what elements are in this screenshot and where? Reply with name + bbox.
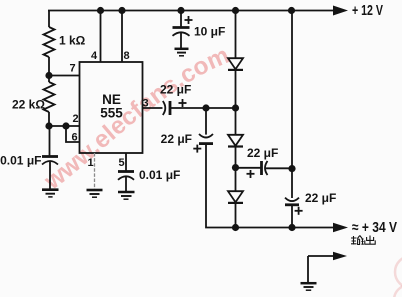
- capacitor C7 22uF (right vertical): [285, 198, 299, 228]
- diode D3: [228, 168, 243, 228]
- svg-text:22 μF: 22 μF: [247, 146, 278, 160]
- wire rail to C3: [180, 11, 182, 28]
- capacitor C1 0.01uF plates: [42, 157, 58, 190]
- ground bottom right: [301, 283, 317, 290]
- capacitor C5 22uF (vertical): [199, 134, 213, 144]
- svg-text:0.01 μF: 0.01 μF: [139, 168, 180, 182]
- svg-text:22 μF: 22 μF: [160, 83, 191, 97]
- junction dot D1-D2: [232, 104, 239, 111]
- svg-text:22 μF: 22 μF: [161, 132, 192, 146]
- watermark www.elecfans.com: [39, 42, 234, 196]
- svg-text:8: 8: [123, 50, 129, 62]
- svg-text:2: 2: [72, 113, 78, 125]
- wire pin 3 to C4: [143, 107, 163, 109]
- watermark circle arc 1: [395, 256, 402, 288]
- plus sign C5: [193, 145, 201, 153]
- svg-text:22 kΩ: 22 kΩ: [12, 98, 45, 112]
- wire right column: [291, 11, 293, 199]
- junction dot C7 bottom rail: [288, 224, 295, 231]
- wire node to R2: [48, 76, 50, 83]
- diode D1: [228, 58, 243, 108]
- ground below C1: [42, 190, 59, 197]
- wire output bottom rail: [236, 227, 333, 229]
- label shuchu (output): [351, 236, 375, 245]
- junction dot rail pin4: [97, 7, 104, 14]
- svg-text:+ 12 V: + 12 V: [352, 3, 383, 19]
- junction dot D3 bottom rail: [232, 224, 239, 231]
- ground below C3: [175, 49, 189, 56]
- svg-text:≈ + 34 V: ≈ + 34 V: [352, 220, 397, 236]
- wire C6 to right column node: [265, 167, 292, 169]
- wire node to C1: [49, 126, 51, 157]
- junction dot rail diode column: [232, 7, 239, 14]
- ground below C2: [118, 192, 135, 199]
- svg-text:555: 555: [100, 106, 123, 121]
- wire node A to diode column: [206, 107, 236, 109]
- wire +12V top rail: [48, 10, 333, 12]
- svg-text:1 kΩ: 1 kΩ: [59, 34, 86, 48]
- svg-text:4: 4: [91, 50, 98, 62]
- wire R2 to node pin2: [48, 112, 50, 126]
- junction dot rail C3: [177, 7, 184, 14]
- wire pin 6 L-shape: [66, 126, 80, 142]
- junction dot D2-D3: [232, 164, 239, 171]
- junction dot R2-C1 pin2 node: [45, 122, 52, 129]
- svg-text:10 μF: 10 μF: [194, 24, 225, 38]
- svg-text:6: 6: [71, 132, 77, 144]
- svg-text:1: 1: [87, 157, 93, 169]
- arrow output: [333, 223, 348, 232]
- wire pin 7: [49, 75, 80, 77]
- junction dot right column node: [288, 165, 295, 172]
- arrow +12V: [333, 6, 348, 16]
- plus sign C7: [295, 207, 303, 215]
- svg-text:7: 7: [69, 63, 75, 75]
- capacitor C4 22uF (series from pin 3): [163, 101, 170, 115]
- junction dot pin2-pin6 branch: [62, 122, 69, 129]
- junction dot node A: [202, 104, 209, 111]
- plus sign C6: [247, 170, 255, 178]
- capacitor C2 0.01uF: [118, 172, 134, 192]
- capacitor C3 10uF: [173, 28, 190, 49]
- junction dot rail pin8: [118, 7, 125, 14]
- diode D2: [228, 108, 243, 168]
- wire node A to C5: [205, 108, 207, 135]
- svg-text:22 μF: 22 μF: [305, 191, 336, 205]
- wire rail to D1: [235, 11, 237, 59]
- wire C5 down to bottom rail: [206, 144, 236, 228]
- plus sign C3: [185, 16, 193, 24]
- capacitor C6 22uF (horizontal): [262, 161, 268, 175]
- wire to second output arrow: [308, 256, 334, 283]
- wire pin 4: [100, 11, 102, 63]
- resistor 22 kOhm: [44, 82, 55, 112]
- ground below pin 1: [87, 190, 103, 197]
- junction dot R1-R2 pin7 node: [45, 72, 52, 79]
- wire left column from rail to R1: [48, 11, 50, 28]
- wire pin 2: [49, 125, 80, 127]
- op-amp/timer U1 NE555 box: [80, 62, 143, 153]
- wire pin 8: [121, 11, 123, 63]
- svg-text:0.01 μF: 0.01 μF: [0, 154, 41, 168]
- svg-text:5: 5: [118, 157, 124, 169]
- wire C4 to node A: [170, 107, 206, 109]
- wire R1 to node pin7: [48, 57, 50, 76]
- wire pin 5 to C2: [125, 153, 127, 172]
- arrow second output: [333, 252, 347, 260]
- wire D2-D3 node to C6: [236, 167, 262, 169]
- wire pin 1 to ground (faint): [94, 153, 96, 190]
- plus sign C4: [179, 99, 187, 107]
- resistor 1 kOhm: [44, 27, 55, 57]
- junction dot rail right column: [288, 7, 295, 14]
- watermark circle arc 2: [394, 285, 402, 297]
